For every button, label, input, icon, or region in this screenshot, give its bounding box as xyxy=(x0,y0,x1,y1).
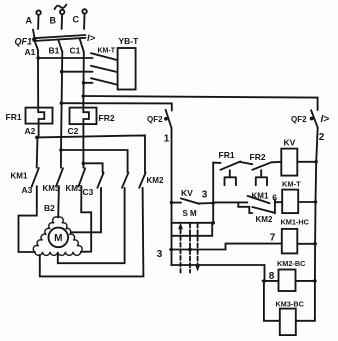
wire branch down to KM3-BC coil xyxy=(264,281,280,321)
svg-text:KV: KV xyxy=(284,138,296,148)
svg-text:1: 1 xyxy=(164,134,170,145)
contactor KM3 contact C xyxy=(78,168,85,186)
svg-text:KM1: KM1 xyxy=(252,192,269,201)
breaker QF1 pole A blade xyxy=(33,30,35,39)
breaker QF1 tie-bar (double line) xyxy=(34,35,86,41)
wire C-phase to contact KM2 pole a xyxy=(83,163,102,172)
wire phase B: QF1 to contact KM3 xyxy=(61,52,62,168)
node dot rail2 y203 xyxy=(211,201,215,205)
node dot A at y137.4 xyxy=(35,136,39,140)
wire node6 to KM-T coil xyxy=(275,201,282,203)
svg-text:KM3: KM3 xyxy=(66,184,83,193)
svg-text:KM-T: KM-T xyxy=(282,180,301,189)
breaker QF2 right dot xyxy=(310,117,314,121)
contactor coil KM3-BC xyxy=(280,309,296,336)
wire stub to KM-T contact 3 xyxy=(84,82,93,84)
svg-text:6: 6 xyxy=(272,192,277,202)
svg-text:KM1-HC: KM1-HC xyxy=(281,218,310,227)
node dot rail1 y202.6 xyxy=(170,201,174,205)
node dot SM middle dash xyxy=(188,248,192,252)
overload relay FR2 heater box xyxy=(70,108,97,125)
node dot right rail y280.9 xyxy=(313,279,317,283)
node dot C at y96 xyxy=(82,94,86,98)
wire phase C: QF1 to FR2 jog to contact KM3 xyxy=(83,52,89,168)
wire phase A below A2 to contact KM1 xyxy=(36,137,39,167)
svg-text:A3: A3 xyxy=(22,185,33,195)
svg-text:C: C xyxy=(73,15,80,25)
contactor KM3 contact B xyxy=(56,168,63,186)
node dot rail2 y222.8 xyxy=(211,221,215,225)
wire B2 to motor top vertex xyxy=(57,186,60,217)
wire KM2-BC coil to right rail xyxy=(296,280,316,282)
wire KM1-HC coil to right rail xyxy=(297,243,315,245)
node dot A at y58 xyxy=(36,56,40,60)
node dot 8 junction xyxy=(262,279,266,283)
switch SM linkage dash 3 xyxy=(197,224,199,265)
switch SM rung A xyxy=(171,222,213,224)
svg-text:KM2: KM2 xyxy=(256,215,273,224)
svg-text:FR2: FR2 xyxy=(99,113,115,123)
wire between FR1 and FR2 contacts xyxy=(240,162,252,164)
wire KM2a to winding tap right side xyxy=(72,188,102,233)
svg-text:KM2-BC: KM2-BC xyxy=(277,259,306,268)
switch SM down arrow xyxy=(195,265,200,272)
wire stub to KM-T contact 1 xyxy=(38,57,92,59)
contactor KM-T blade 3 xyxy=(91,78,117,84)
wire B-phase to contact KM2 pole b xyxy=(61,150,128,172)
node dot B at y150 xyxy=(59,148,63,152)
wire step to KM2 contact xyxy=(238,202,252,213)
svg-text:QF2: QF2 xyxy=(291,115,307,124)
switch SM rung B xyxy=(171,223,212,236)
svg-text:7: 7 xyxy=(270,233,276,244)
svg-text:QF1: QF1 xyxy=(15,37,33,47)
wire KV coil to right rail xyxy=(297,161,316,163)
wire phase A drop xyxy=(37,15,39,29)
wire right rail vertical xyxy=(315,128,318,281)
overload contact FR2 xyxy=(252,162,271,185)
svg-text:C3: C3 xyxy=(83,187,94,197)
svg-text:S M: S M xyxy=(183,209,198,218)
breaker QF2 left blade xyxy=(166,110,172,128)
node dot C at y163.3 xyxy=(82,162,86,166)
node dot rail1 y249.5 xyxy=(170,248,174,252)
wire left rail QF2 down xyxy=(171,128,173,265)
breaker QF1 pole B blade xyxy=(58,40,62,52)
wire C3 to motor right vertex xyxy=(81,186,91,252)
svg-text:KV: KV xyxy=(181,188,193,198)
wire KM2c to winding tap left xyxy=(40,188,144,277)
wire A3 to motor left vertex xyxy=(19,186,37,252)
svg-text:A: A xyxy=(26,16,33,26)
contactor KM-T blade 2 xyxy=(91,66,117,72)
svg-text:KM-T: KM-T xyxy=(98,48,116,55)
wire right rail bottom to KM3-BC xyxy=(296,281,315,321)
svg-text:KM2: KM2 xyxy=(147,176,164,185)
node dot right rail y161.8 xyxy=(314,160,318,164)
node dot B at y71.7 xyxy=(60,70,64,74)
svg-text:B: B xyxy=(50,16,57,26)
switch SM linkage dash 2 xyxy=(189,224,191,273)
relay contact KV xyxy=(172,198,214,203)
svg-text:B2: B2 xyxy=(44,203,55,213)
overload contact FR1 xyxy=(220,162,240,186)
contactor KM2 contact a xyxy=(97,173,103,188)
wire KM2b to winding tap bottom xyxy=(58,188,125,263)
wire KM-T coil to right rail xyxy=(298,201,315,203)
wire phase A: QF1 to FR1 jog to node A2 xyxy=(35,41,45,138)
wire rail2 vertical xyxy=(212,163,214,223)
contactor KM2 contact b xyxy=(122,173,128,188)
svg-text:B1: B1 xyxy=(49,46,60,56)
wire into KM2-BC coil xyxy=(263,280,279,282)
wire to FR1 contact xyxy=(213,162,220,164)
svg-text:A2: A2 xyxy=(25,126,36,136)
switch SM rung D xyxy=(171,265,264,281)
tilde AC symbol xyxy=(55,5,67,10)
wire FR2 to KV coil xyxy=(271,161,281,164)
svg-text:3: 3 xyxy=(202,190,208,201)
brake YB-T box xyxy=(118,48,136,90)
terminal A xyxy=(36,10,40,14)
contactor KM1 contact xyxy=(32,168,39,187)
svg-text:I>: I> xyxy=(87,33,96,44)
svg-text:C1: C1 xyxy=(70,46,81,56)
wire phase C drop xyxy=(83,14,85,29)
node dot B at y103 xyxy=(60,101,64,105)
svg-text:I>: I> xyxy=(321,114,330,125)
wire B-phase to left QF2 xyxy=(61,103,171,110)
contactor aux contact KM1 xyxy=(248,196,270,203)
contactor aux contact KM2 xyxy=(252,207,274,213)
switch SM rung C to KM1-HC coil xyxy=(170,244,282,250)
svg-text:M: M xyxy=(54,233,62,244)
motor M circle xyxy=(49,228,69,248)
node dot C at y82.8 xyxy=(82,81,86,85)
svg-text:QF2: QF2 xyxy=(147,115,163,124)
node dot right rail y243.8 xyxy=(313,242,317,246)
wire node3 to KM1 contact xyxy=(213,201,247,203)
motor winding triangle xyxy=(33,217,82,256)
svg-text:FR2: FR2 xyxy=(250,152,266,162)
wire A-phase to contact KM2 pole c xyxy=(37,135,145,172)
wire phase B drop xyxy=(61,14,64,29)
node dot right rail y202 xyxy=(314,200,318,204)
wire C-phase to right QF2 xyxy=(83,96,317,110)
breaker QF2 right blade xyxy=(311,110,318,127)
wire stub to KM-T contact 2 xyxy=(62,71,93,73)
relay coil KV xyxy=(281,149,297,176)
contactor coil KM-T xyxy=(282,190,298,214)
contactor KM-T blade 1 xyxy=(91,53,117,60)
svg-text:YB-T: YB-T xyxy=(119,36,140,46)
contactor coil KM2-BC xyxy=(279,270,296,292)
svg-text:2: 2 xyxy=(319,132,325,143)
svg-text:A1: A1 xyxy=(25,47,36,57)
terminal C xyxy=(82,9,86,13)
terminal B xyxy=(60,10,64,14)
svg-text:8: 8 xyxy=(269,271,275,282)
switch SM up arrow xyxy=(178,223,183,230)
overload relay FR1 heater box xyxy=(26,108,53,124)
svg-text:3: 3 xyxy=(157,249,163,260)
svg-text:C2: C2 xyxy=(68,126,79,136)
breaker QF1 pole C blade xyxy=(80,39,84,52)
svg-text:KM1: KM1 xyxy=(11,172,28,181)
breaker QF1 pivot dot xyxy=(32,37,36,41)
contactor coil KM1-HC xyxy=(282,229,298,254)
svg-text:KM3: KM3 xyxy=(43,184,60,193)
svg-text:FR1: FR1 xyxy=(219,150,235,160)
node 6 bar xyxy=(274,200,276,214)
breaker QF2 left dot xyxy=(164,117,168,121)
switch SM linkage dash 1 xyxy=(180,230,182,273)
svg-text:FR1: FR1 xyxy=(6,112,22,122)
contactor KM2 contact c xyxy=(139,173,145,188)
svg-text:KM3-BC: KM3-BC xyxy=(276,300,305,309)
